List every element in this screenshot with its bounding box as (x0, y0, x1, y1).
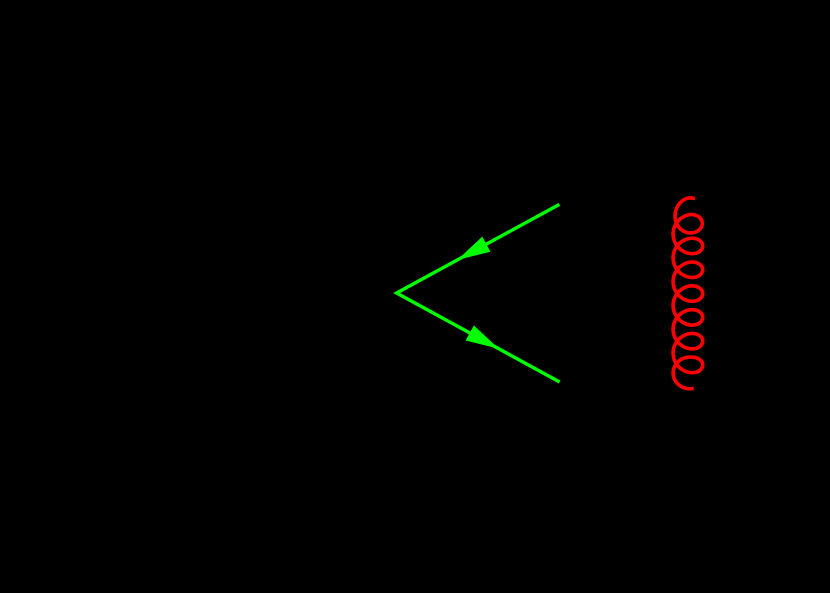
arrow on incoming fermion (points to vertex) (457, 237, 490, 260)
arrow on outgoing fermion (points away from vertex) (466, 325, 499, 348)
wire: fermion pair q qbar (green) (397, 204, 560, 382)
gluon g (red coil) (673, 198, 703, 389)
